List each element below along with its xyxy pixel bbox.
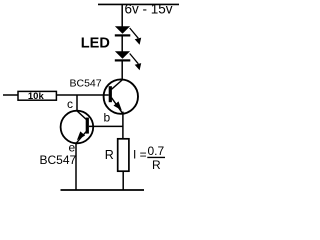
svg-text:R: R <box>105 148 114 162</box>
svg-text:BC547: BC547 <box>40 153 77 167</box>
wire: rail to LED1 anode <box>121 4 123 27</box>
svg-text:I =: I = <box>133 148 147 162</box>
transistor Q1 BC547 (npn) <box>104 79 138 114</box>
wire: base rail to Q2 collector <box>76 95 78 111</box>
wire: Q2 base to node b <box>89 125 123 127</box>
resistor R <box>118 139 129 171</box>
wire: Q1 emitter down through node b to resistor R <box>122 112 124 139</box>
wire: LED2 cathode to Q1 collector <box>121 60 123 80</box>
wire: Q2 emitter to ground rail <box>75 143 77 190</box>
transistor Q2 BC547 (npn, mirrored) <box>61 111 94 144</box>
svg-text:b: b <box>104 111 111 125</box>
svg-text:LED: LED <box>81 36 110 52</box>
svg-text:R: R <box>152 158 161 172</box>
wire: left lead into 10k <box>3 94 18 96</box>
svg-text:c: c <box>67 97 73 111</box>
svg-text:BC547: BC547 <box>70 78 102 90</box>
wire: LED1 cathode to LED2 anode <box>121 35 123 52</box>
svg-text:6v - 15v: 6v - 15v <box>125 2 173 17</box>
power rail 6v-15v <box>98 3 179 5</box>
resistor 10k <box>18 91 56 102</box>
LED D1 <box>115 26 141 45</box>
LED D2 <box>115 51 141 70</box>
wire: resistor R to ground rail <box>122 171 124 190</box>
svg-text:0.7: 0.7 <box>148 144 165 158</box>
wire: 10k to Q1 base <box>56 94 108 96</box>
svg-text:10k: 10k <box>28 91 45 102</box>
ground rail 0v <box>61 189 145 191</box>
formula I = 0.7/R <box>133 144 165 172</box>
